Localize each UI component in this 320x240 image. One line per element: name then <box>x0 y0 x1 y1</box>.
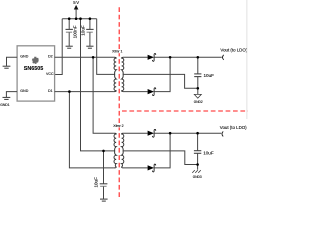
svg-text:10uF: 10uF <box>81 25 86 36</box>
diode D3 (schottky top, lower section) <box>148 129 156 137</box>
node cap return <box>197 87 200 90</box>
frame edge right <box>246 0 248 119</box>
isolation barrier vertical <box>118 7 120 199</box>
wire D2 branch to xfmr2 <box>93 57 114 133</box>
node cap bottom return <box>196 163 199 166</box>
svg-text:V: V <box>76 0 79 5</box>
svg-text:D1: D1 <box>48 89 53 93</box>
capacitor C1 100nF <box>66 19 73 46</box>
ground (C2) <box>86 46 93 48</box>
wire D2 to xfmr1 <box>55 56 114 58</box>
power 5V <box>73 0 79 19</box>
capacitor C3 10uF output top <box>194 57 201 94</box>
wire GND top-left <box>7 57 18 66</box>
svg-text:100nF: 100nF <box>72 25 77 38</box>
wire 5V rail <box>62 18 96 20</box>
wire xfmr2 sec center return <box>123 151 198 165</box>
wire GND1 <box>6 92 17 98</box>
svg-text:GND1: GND1 <box>0 103 10 107</box>
svg-text:SN6505: SN6505 <box>24 66 43 72</box>
isolation barrier horizontal <box>122 110 248 112</box>
wire xfmr1 sec bottom to diode <box>124 91 148 93</box>
svg-text:10uF: 10uF <box>203 150 214 155</box>
transformer T1 label <box>112 49 124 53</box>
wire diode bottom join <box>154 57 170 91</box>
svg-text:GND2: GND2 <box>194 100 203 104</box>
capacitor C5 10uF output bottom <box>194 133 201 170</box>
svg-text:D2: D2 <box>48 54 53 58</box>
transformer T1 <box>114 57 124 91</box>
ground GND3 <box>192 170 201 173</box>
wire VCC drop <box>55 19 63 75</box>
wire xfmr1 sec top to diode <box>124 56 148 58</box>
wire diode bottom join (lower) <box>154 133 170 168</box>
svg-text:GND3: GND3 <box>193 175 202 179</box>
wire 5V to xfmr2 center tap <box>81 19 115 151</box>
diode D2 (schottky bottom) <box>148 88 156 96</box>
TI logo <box>32 57 39 64</box>
ground (C4) <box>100 199 108 201</box>
svg-text:Vout (to LDO): Vout (to LDO) <box>220 48 247 53</box>
node diode join top <box>169 56 172 59</box>
svg-text:10uF: 10uF <box>204 73 215 78</box>
node junctions on 5V rail <box>68 17 91 20</box>
svg-text:Xfmr 1: Xfmr 1 <box>112 50 122 54</box>
svg-text:10uF: 10uF <box>93 177 98 188</box>
node xfmr2 center tap <box>102 150 105 153</box>
wire xfmr2 sec bottom to diode <box>124 167 148 169</box>
wire D1 branch to xfmr2 <box>69 92 114 168</box>
op-amp U1 SN6505 <box>17 46 55 101</box>
svg-text:Vout (to LDO): Vout (to LDO) <box>220 125 247 130</box>
wire diode to Vout top <box>154 56 222 58</box>
wire D1 to xfmr1 <box>55 91 114 93</box>
capacitor C4 10uF (xfmr2 center tap) <box>100 151 108 199</box>
transformer T2 label <box>113 124 125 128</box>
svg-text:Xfmr 2: Xfmr 2 <box>113 124 123 128</box>
ground (top-left) <box>3 66 11 68</box>
terminal Vout top <box>223 55 224 60</box>
wire xfmr2 sec top to diode <box>124 132 148 134</box>
ground GND1 <box>3 97 11 99</box>
svg-text:VCC: VCC <box>46 72 54 76</box>
wire xfmr1 sec center return <box>123 74 198 88</box>
diode D1 (schottky top) <box>148 54 156 62</box>
node on D2 wire <box>92 56 95 59</box>
ground GND2 <box>194 94 201 98</box>
transformer T2 <box>114 133 124 168</box>
wire diode to Vout bottom <box>154 132 221 134</box>
node diode join bottom section <box>169 132 172 135</box>
svg-text:GND: GND <box>20 89 28 93</box>
svg-text:GND: GND <box>20 54 28 58</box>
wire 5V to xfmr1 center tap <box>97 19 115 75</box>
terminal Vout bottom <box>222 131 223 136</box>
node cap top <box>197 56 200 59</box>
ground (C1) <box>66 46 73 48</box>
diode D4 (schottky bottom, lower section) <box>148 164 156 172</box>
node cap bottom section top <box>196 132 199 135</box>
capacitor C2 10uF <box>86 19 93 46</box>
node on D1 wire <box>68 90 71 93</box>
